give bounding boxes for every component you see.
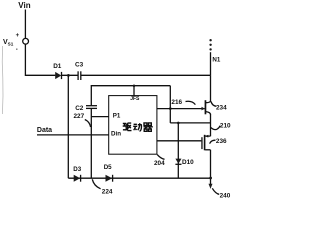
- junction dot gate wire: [169, 107, 172, 110]
- svg-text:C3: C3: [75, 61, 84, 68]
- svg-text:210: 210: [220, 123, 231, 130]
- junction dot bottom rail: [209, 177, 212, 180]
- output arrow 240: [209, 184, 213, 189]
- transistor Q2 236 gate bar: [201, 137, 202, 149]
- wire Vin to source VS1: [24, 10, 26, 39]
- zener D10: [175, 159, 181, 164]
- svg-text:224: 224: [102, 188, 113, 195]
- leader 216: [186, 101, 196, 104]
- leader 234: [211, 102, 216, 107]
- leader 224: [92, 179, 100, 189]
- leader 236: [210, 140, 216, 143]
- wire top of C2 branch: [91, 86, 170, 106]
- wire N1: [210, 52, 212, 75]
- glyph qu: [123, 123, 127, 130]
- svg-text:240: 240: [220, 192, 231, 199]
- leader 204: [157, 155, 164, 160]
- svg-text:236: 236: [216, 138, 227, 145]
- capacitor C3: [77, 71, 79, 80]
- svg-text:D1: D1: [53, 63, 62, 70]
- svg-text:N1: N1: [212, 56, 220, 63]
- transistor Q2 236 channel bar: [204, 135, 206, 151]
- svg-text:D5: D5: [104, 164, 112, 171]
- transistor Q2 236 source wire: [205, 149, 210, 151]
- svg-text:234: 234: [216, 105, 227, 112]
- wire gate of 234 from box: [157, 108, 205, 110]
- svg-text:-: -: [16, 47, 18, 53]
- transistor Q1 234 channel bar: [205, 100, 207, 114]
- svg-text:Data: Data: [37, 127, 52, 134]
- leader 210: [211, 126, 220, 130]
- svg-text:Vin: Vin: [18, 1, 30, 10]
- junction dot A: [67, 74, 70, 77]
- glyph qi: [144, 123, 151, 126]
- wire trunk 234 drain up: [210, 75, 212, 101]
- junction dot on branch: [133, 85, 136, 88]
- glyph dong: [133, 124, 137, 130]
- label driver text (drawn glyphs: 驱动器): [123, 123, 153, 131]
- wire D1 to C3: [62, 74, 79, 76]
- wire trunk 234 source down: [210, 114, 212, 136]
- wire Data to Din: [37, 134, 109, 136]
- driver box U1: [109, 96, 157, 155]
- scan artifact left edge: [1, 46, 4, 114]
- diode D3: [74, 175, 81, 182]
- junction dot D10 top: [177, 122, 180, 125]
- svg-text:D10: D10: [182, 159, 194, 166]
- transistor Q1 234 gate arrowhead: [202, 107, 205, 111]
- node N1 dotted continuation: [209, 39, 211, 41]
- svg-text:D3: D3: [73, 166, 81, 173]
- wire node to trunk: [170, 122, 210, 124]
- diode D1: [55, 72, 61, 79]
- wire VS1 down to main rail corner: [25, 44, 55, 75]
- svg-text:204: 204: [154, 160, 165, 167]
- leader 240: [212, 188, 219, 194]
- wire P1 pin: [91, 116, 108, 118]
- wire connector to JFS box: [133, 86, 135, 96]
- svg-text:JFS: JFS: [130, 96, 140, 102]
- wire below C2 down to bottom rail: [90, 108, 92, 178]
- leader 227: [85, 120, 91, 128]
- wire left vertical from D1/C3 junction down to bottom rail: [67, 75, 69, 178]
- main wire C3 to node N1 corner: [81, 74, 211, 76]
- voltage source VS1: [23, 38, 29, 44]
- svg-text:VS1: VS1: [3, 39, 14, 47]
- svg-text:227: 227: [74, 113, 85, 120]
- zener D10 wire: [177, 123, 179, 178]
- diode D5: [106, 175, 113, 182]
- svg-text:Din: Din: [111, 130, 121, 137]
- wire right vertical of top branch: [169, 86, 171, 123]
- capacitor C2: [86, 105, 97, 107]
- wire gate of 236 from box: [157, 140, 202, 142]
- svg-text:+: +: [16, 33, 20, 39]
- bottom rail wire: [68, 177, 210, 179]
- svg-text:P1: P1: [113, 112, 121, 119]
- wire trunk 236 source to output: [210, 150, 212, 185]
- transistor Q1 234 drain link: [206, 101, 211, 103]
- transistor Q1 234 source link: [206, 112, 211, 115]
- svg-text:216: 216: [171, 99, 182, 106]
- transistor Q2 236 drain arrowhead: [205, 135, 208, 138]
- svg-text:C2: C2: [75, 105, 84, 112]
- transistor Q2 236 drain wire: [205, 135, 210, 137]
